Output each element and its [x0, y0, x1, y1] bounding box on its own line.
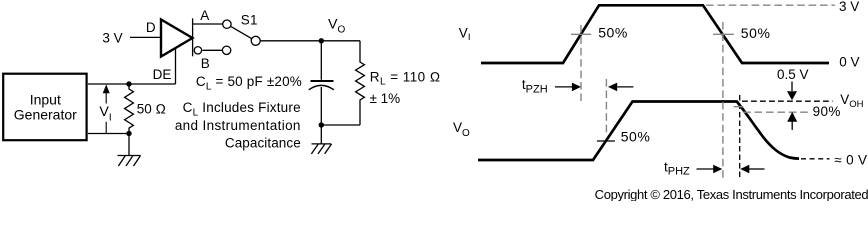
- tick VI fall 50%: [713, 33, 734, 35]
- capacitor CL: [309, 41, 334, 125]
- waveform VI trace: [481, 5, 829, 63]
- dashed VOH level: [742, 100, 833, 102]
- arrow tPZH right: [608, 83, 633, 92]
- tick VO fall 90%: [734, 106, 744, 108]
- switch S1 pole bar: [192, 18, 194, 56]
- wire bottom rail: [321, 124, 360, 126]
- ground right: [311, 125, 331, 154]
- dashed 0V tail level: [801, 158, 830, 160]
- wire 3V to buffer: [130, 36, 160, 38]
- svg-text:A: A: [200, 8, 209, 23]
- contact B terminal right: [222, 46, 230, 54]
- switch common terminal: [251, 36, 260, 45]
- arrow tPZH left: [555, 83, 581, 92]
- dashed vertical VO rise 50%: [605, 79, 607, 134]
- svg-text:50%: 50%: [598, 24, 628, 40]
- svg-text:Copyright © 2016, Texas Instru: Copyright © 2016, Texas Instruments Inco…: [595, 187, 868, 201]
- svg-text:B: B: [201, 56, 210, 71]
- svg-text:± 1%: ± 1%: [370, 91, 401, 106]
- wire contact B: [202, 49, 222, 51]
- dashed vertical VO fall start: [739, 95, 741, 180]
- buffer U1: [161, 20, 193, 57]
- arrow tPHZ left: [697, 165, 723, 174]
- arrow VI measurement: [103, 85, 110, 134]
- dashed vertical VI fall 50%: [722, 22, 724, 181]
- arrow 90% up: [787, 112, 797, 130]
- dashed 3V level: [706, 4, 835, 6]
- contact A terminal: [223, 20, 231, 28]
- svg-text:DE: DE: [153, 67, 172, 82]
- svg-text:and Instrumentation: and Instrumentation: [175, 118, 301, 133]
- wire switch to VO node: [260, 40, 360, 42]
- tick VI rise 50%: [571, 33, 591, 35]
- svg-text:0.5 V: 0.5 V: [777, 67, 809, 82]
- dashed 90% level: [743, 111, 811, 113]
- ground left: [118, 134, 141, 167]
- wire DE vertical: [175, 48, 177, 85]
- waveform VO trace: [478, 102, 799, 161]
- input generator box: [3, 74, 86, 141]
- svg-text:≈ 0 V: ≈ 0 V: [834, 153, 867, 168]
- svg-text:S1: S1: [241, 13, 258, 28]
- svg-text:50 Ω: 50 Ω: [137, 102, 166, 117]
- node junction top: [126, 81, 131, 86]
- svg-text:Input: Input: [30, 91, 61, 107]
- svg-text:D: D: [146, 20, 156, 35]
- node VO: [319, 38, 324, 43]
- wire contact A: [193, 23, 223, 25]
- svg-text:0 V: 0 V: [839, 55, 859, 70]
- switch wiper: [231, 27, 252, 39]
- contact B terminal left: [194, 47, 201, 54]
- wire bottom from generator: [88, 133, 129, 135]
- resistor RL: [356, 41, 365, 125]
- svg-text:Generator: Generator: [14, 107, 77, 123]
- svg-text:Capacitance: Capacitance: [225, 135, 301, 150]
- svg-text:50%: 50%: [621, 128, 651, 144]
- svg-text:3 V: 3 V: [839, 0, 859, 14]
- wire top from generator to DE: [88, 83, 176, 85]
- node junction bottom: [126, 131, 131, 136]
- svg-text:50%: 50%: [741, 25, 771, 41]
- svg-text:90%: 90%: [813, 104, 841, 119]
- node junction cap bottom: [319, 122, 324, 127]
- dashed vertical VI rise 50%: [580, 25, 582, 101]
- arrow 0.5V down: [787, 82, 797, 101]
- svg-text:3 V: 3 V: [102, 30, 122, 45]
- resistor 50 ohm: [125, 84, 134, 134]
- tick VO rise 50%: [597, 140, 615, 142]
- arrow tPHZ right: [740, 165, 764, 174]
